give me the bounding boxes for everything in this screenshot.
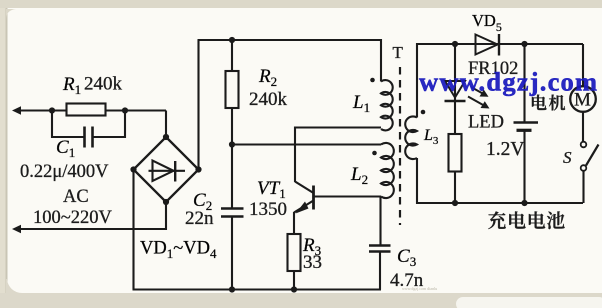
svg-text:0.22μ/400V: 0.22μ/400V bbox=[20, 162, 109, 182]
svg-text:LED: LED bbox=[468, 113, 504, 133]
svg-text:240k: 240k bbox=[84, 74, 123, 95]
svg-text:33: 33 bbox=[303, 252, 322, 273]
svg-text:T: T bbox=[393, 43, 404, 62]
svg-text:www.dgzj.com: www.dgzj.com bbox=[419, 67, 598, 97]
svg-text:22n: 22n bbox=[185, 208, 214, 229]
svg-text:VD1~VD4: VD1~VD4 bbox=[140, 239, 217, 262]
svg-text:100~220V: 100~220V bbox=[33, 208, 113, 228]
svg-text:S: S bbox=[563, 148, 572, 167]
svg-text:4.7n: 4.7n bbox=[390, 270, 424, 291]
svg-text:1350: 1350 bbox=[249, 199, 287, 220]
svg-text:1.2V: 1.2V bbox=[486, 139, 524, 160]
svg-text:AC: AC bbox=[63, 187, 89, 207]
svg-text:240k: 240k bbox=[249, 89, 288, 110]
